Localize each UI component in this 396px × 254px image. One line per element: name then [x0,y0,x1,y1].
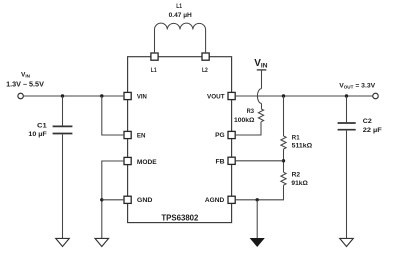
wire output rail [235,95,373,97]
input terminal VIN [6,71,44,98]
capacitor C2 [338,96,382,238]
wire to R3 [261,103,263,108]
svg-text:TPS63802: TPS63802 [161,212,198,222]
node junction C2 branch [345,94,348,97]
node junction C1 branch [61,94,64,97]
svg-text:FB: FB [216,159,225,166]
wire FB pin [235,160,283,162]
wire R1 to junction [283,149,285,172]
pin AGND [228,196,235,203]
wire rail to R1 [283,96,285,136]
svg-text:0.47 µH: 0.47 µH [169,12,192,19]
svg-text:C1: C1 [37,123,47,130]
node junction R1 branch [282,94,285,97]
svg-text:PG: PG [215,132,225,139]
svg-text:GND: GND [137,197,153,204]
svg-text:L1: L1 [151,67,157,74]
ground (C2) [340,238,354,246]
svg-text:VIN: VIN [137,94,147,101]
pin PG [228,131,235,138]
inductor L1 [155,3,206,53]
resistor R1 [281,134,313,149]
svg-text:91kΩ: 91kΩ [291,180,308,187]
pin MODE [124,157,131,164]
svg-text:VOUT: VOUT [207,94,225,101]
pin EN [124,131,131,138]
wire MODE tie to GND [102,161,124,238]
ground (analog, filled) [250,238,265,247]
svg-text:511kΩ: 511kΩ [292,142,313,149]
pin VIN [124,92,131,99]
output terminal VOUT [339,83,378,99]
node junction FB [282,159,285,162]
pin FB [228,157,235,164]
op-amp U1 TPS63802 body [128,57,232,223]
svg-text:10 µF: 10 µF [28,131,46,138]
svg-text:22 µF: 22 µF [363,127,382,134]
svg-text:L2: L2 [202,67,208,74]
pin L1 (top) [151,53,158,60]
svg-text:AGND: AGND [205,197,224,204]
node junction GND [100,198,103,201]
svg-text:L1: L1 [176,3,182,10]
svg-text:EN: EN [137,133,146,140]
resistor R3 [234,108,264,124]
wire to analog ground [256,200,258,238]
capacitor C1 [28,96,72,238]
pin VOUT [228,92,235,99]
svg-text:C2: C2 [363,118,372,125]
ground (C1) [56,238,70,246]
resistor R2 [281,171,308,187]
svg-text:100kΩ: 100kΩ [234,117,255,124]
wire R3 to PG [235,122,261,135]
pin L2 (top) [202,53,209,60]
svg-text:MODE: MODE [137,159,157,166]
node junction EN branch [100,94,103,97]
svg-text:1.3V – 5.5V: 1.3V – 5.5V [6,79,44,88]
svg-text:R2: R2 [292,171,301,178]
wire GND pin [102,199,124,201]
pin GND [124,196,131,203]
ground (GND/MODE) [95,238,109,246]
node junction AGND [256,198,259,201]
wire R2 to AGND [235,185,283,200]
wire input rail [23,95,124,97]
svg-text:R1: R1 [292,134,300,141]
svg-text:R3: R3 [247,108,255,115]
supply VIN symbol [254,58,268,89]
wire EN tie to VIN [102,96,124,135]
wire hop over output rail [257,89,261,104]
